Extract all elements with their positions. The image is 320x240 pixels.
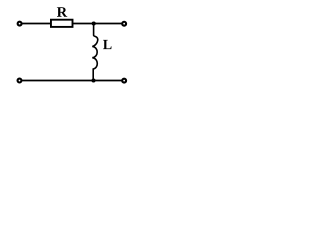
node junction top — [92, 21, 96, 25]
inductor L1 coil — [92, 24, 97, 81]
label L — [103, 40, 112, 49]
node junction bottom — [91, 78, 95, 82]
terminal top-right — [122, 22, 126, 26]
wire resistor to terminal top-right — [73, 23, 122, 25]
label R — [57, 7, 67, 16]
wire bottom — [22, 80, 122, 82]
terminal bottom-left — [18, 79, 22, 83]
background — [0, 0, 150, 96]
resistor R1 body — [51, 20, 73, 27]
wire top-left to resistor — [22, 23, 52, 25]
terminal bottom-right — [122, 79, 126, 83]
terminal top-left — [18, 22, 22, 26]
